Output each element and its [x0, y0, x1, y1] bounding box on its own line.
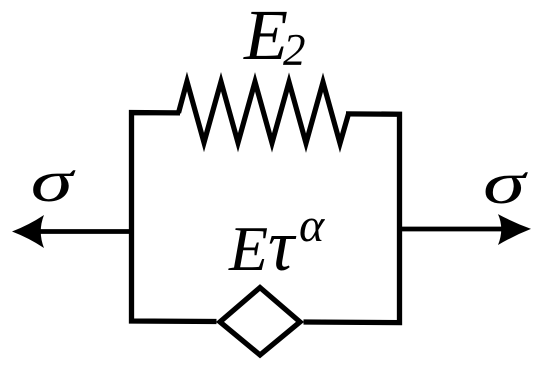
label E tau^alpha (springpot coefficient)	[228, 199, 325, 286]
wire: left side + bottom-left segment (frame of parallel branches)	[132, 113, 217, 322]
svg-text:α: α	[299, 199, 325, 252]
svg-text:E: E	[228, 213, 268, 284]
springpot element (diamond, bottom branch)	[220, 288, 300, 356]
label E2 (top spring modulus)	[243, 0, 306, 75]
left stress arrowhead	[12, 215, 44, 248]
svg-text:E: E	[243, 0, 288, 75]
label sigma (right stress)	[483, 151, 528, 216]
right stress arrowhead	[498, 214, 531, 245]
wire: right side + bottom-right segment	[304, 114, 400, 323]
svg-text:2: 2	[283, 25, 306, 75]
label sigma (left stress)	[31, 149, 76, 214]
right stress arrow shaft	[398, 227, 505, 232]
left stress arrow shaft	[40, 229, 133, 234]
svg-text:σ: σ	[483, 151, 528, 216]
svg-text:τ: τ	[268, 205, 297, 286]
svg-text:σ: σ	[31, 149, 76, 214]
spring E2 (zigzag element, top branch)	[179, 81, 349, 143]
